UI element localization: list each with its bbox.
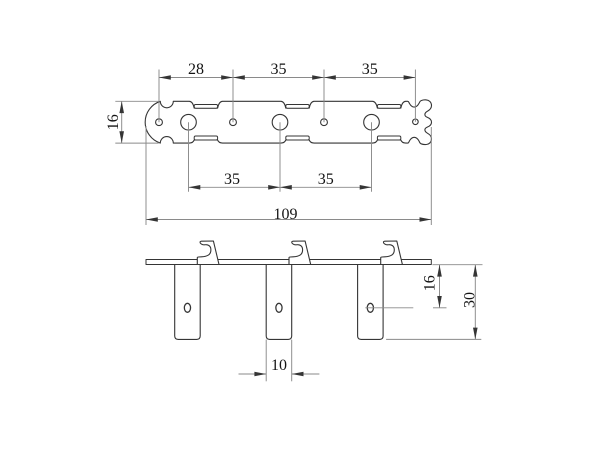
extension line 10 right [291, 340, 293, 382]
svg-text:35: 35 [271, 61, 287, 78]
big hole 1 [181, 114, 197, 130]
arrows top chain [159, 75, 415, 80]
tab hole 1 [184, 303, 190, 312]
svg-text:35: 35 [362, 61, 378, 78]
extension line bighole1 [188, 122, 190, 192]
arrows 10 [254, 372, 303, 377]
dimension line 10 right segment [292, 373, 320, 375]
dimension line 109 [146, 219, 431, 221]
extension line 109 left [145, 126, 147, 225]
dimension line 10 left segment [239, 373, 267, 375]
rib tab bottom 1 [194, 136, 217, 140]
extension line x324 [323, 70, 325, 123]
svg-text:16: 16 [422, 275, 439, 291]
rib tab top 1 [194, 105, 217, 109]
extension line side top [432, 264, 482, 266]
extension line 16 top [115, 100, 158, 102]
svg-text:28: 28 [188, 61, 204, 78]
extension line tab bottom [386, 338, 481, 340]
tab 1 [175, 264, 201, 339]
small hole 2 [230, 119, 237, 126]
arrows 16 [119, 101, 124, 143]
svg-text:109: 109 [274, 206, 298, 223]
leader line from tab hole 3 [365, 307, 413, 309]
svg-text:30: 30 [462, 292, 479, 308]
extension line x159 [158, 70, 160, 123]
big hole 3 [364, 114, 380, 130]
plate outline [145, 100, 431, 145]
bar (plate edge-on) [146, 260, 431, 265]
arrows middle chain [189, 185, 372, 190]
tab hole 3 [367, 303, 373, 312]
arrows 30 [473, 265, 478, 340]
extension line bighole3 [371, 122, 373, 192]
extension line 109 right [430, 127, 432, 225]
small hole 4 [413, 119, 419, 125]
dimension line middle chain [189, 186, 372, 188]
small hole 1 [156, 119, 163, 126]
rib tab bottom 3 [377, 136, 400, 140]
extension tick hole level [433, 307, 447, 309]
arrows 16 side [437, 265, 442, 308]
hook 2 [289, 241, 311, 265]
arrows 109 [146, 217, 431, 222]
rib tab bottom 2 [286, 136, 309, 140]
small hole 3 [321, 119, 328, 126]
extension line x233 [232, 70, 234, 123]
dimension line top chain [159, 77, 415, 79]
extension line x415 [414, 70, 416, 122]
tab 3 [358, 264, 384, 339]
dimension line 30 [474, 265, 476, 340]
hook 3 [381, 241, 403, 265]
rib tab top 2 [286, 105, 309, 109]
dimension line 16 [121, 101, 123, 143]
big hole 2 [272, 114, 288, 130]
extension line 10 left [265, 340, 267, 382]
dimension line 16 side [439, 265, 441, 308]
extension line 16 bottom [115, 142, 158, 144]
svg-text:16: 16 [105, 114, 122, 130]
extension line bighole2 [279, 122, 281, 192]
svg-text:10: 10 [271, 357, 287, 374]
hook 1 [197, 241, 219, 265]
tab 2 [266, 264, 292, 339]
svg-text:35: 35 [224, 171, 240, 188]
tab hole 2 [276, 303, 282, 312]
svg-text:35: 35 [318, 171, 334, 188]
rib tab top 3 [377, 105, 400, 109]
